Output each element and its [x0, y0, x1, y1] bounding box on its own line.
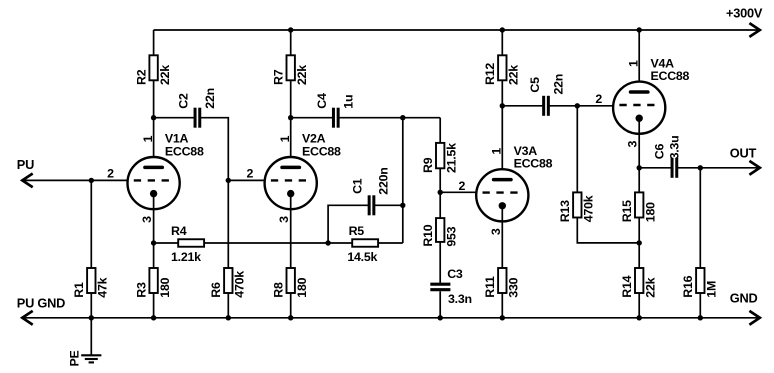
svg-text:220n: 220n	[377, 167, 391, 194]
wire V4A cathode down	[638, 118, 640, 192]
junction R12 / C5	[500, 103, 505, 108]
svg-text:R16: R16	[681, 275, 695, 297]
junction C2 / R6 / V2A grid	[226, 178, 231, 183]
wire rail to V4A anode	[638, 30, 640, 92]
svg-text:22k: 22k	[295, 65, 309, 85]
wire PU input to V1A grid	[25, 179, 129, 181]
svg-text:22k: 22k	[158, 65, 172, 85]
svg-text:1: 1	[141, 135, 155, 142]
svg-text:PU GND: PU GND	[17, 295, 65, 310]
svg-text:ECC88: ECC88	[514, 157, 553, 171]
capacitor C2	[195, 108, 200, 128]
wire R7 to V2A anode	[290, 80, 292, 168]
svg-text:R12: R12	[483, 63, 497, 85]
svg-text:953: 953	[444, 226, 458, 246]
wire rail to R7	[290, 30, 292, 55]
wire C3 bottom lead	[439, 291, 441, 318]
triode V3A (ECC88)	[476, 169, 528, 221]
svg-text:1: 1	[490, 148, 504, 155]
wire +300V rail	[154, 29, 758, 31]
svg-text:R2: R2	[134, 69, 148, 85]
svg-text:1M: 1M	[705, 281, 719, 298]
svg-text:R8: R8	[272, 282, 286, 298]
wire C1 left branch	[328, 205, 369, 243]
junction R2 / C2	[151, 115, 156, 120]
wire R11 bottom lead	[501, 293, 503, 318]
PU terminal arrow	[22, 174, 32, 188]
wire to V3A grid	[440, 191, 477, 193]
junction C4 line / C1-R5 branch	[400, 115, 405, 120]
wire R8 bottom lead	[290, 293, 292, 318]
wire R16 top lead	[699, 168, 701, 268]
svg-text:1: 1	[626, 60, 640, 67]
wire C5 to V4A grid	[548, 105, 614, 107]
svg-text:ECC88: ECC88	[165, 144, 204, 158]
svg-text:C1: C1	[350, 178, 364, 194]
svg-text:ECC88: ECC88	[651, 69, 690, 83]
wire R9 to R10	[439, 168, 441, 218]
capacitor C3	[430, 284, 450, 290]
junction R3 / ground rail	[151, 315, 156, 320]
svg-text:3.3n: 3.3n	[448, 292, 472, 306]
wire C2 left lead	[154, 117, 195, 119]
svg-text:22n: 22n	[551, 74, 565, 95]
wire rail to R2	[153, 30, 155, 55]
svg-text:ECC88: ECC88	[302, 144, 341, 158]
wire C4 to R9 corner	[338, 117, 440, 119]
svg-text:21.5k: 21.5k	[444, 143, 458, 173]
wire R4 to R5 node	[204, 242, 328, 244]
OUT terminal arrow	[749, 161, 759, 175]
svg-text:180: 180	[158, 277, 172, 297]
wire to V2A grid	[228, 179, 265, 181]
resistor R15	[635, 192, 643, 217]
junction R1 / ground rail	[89, 315, 94, 320]
svg-text:3: 3	[140, 216, 154, 223]
triode V1A (ECC88)	[128, 157, 180, 209]
resistor R7	[287, 55, 295, 80]
svg-text:3: 3	[489, 228, 503, 235]
svg-text:R3: R3	[134, 282, 148, 298]
wire R6 top lead	[227, 180, 229, 268]
svg-text:180: 180	[643, 202, 657, 222]
PE earth ground symbol	[81, 355, 101, 362]
GND terminal arrow	[749, 311, 759, 325]
wire R5 right lead	[378, 242, 403, 244]
junction C5 / R13	[575, 103, 580, 108]
wire C6 left lead	[639, 167, 672, 169]
svg-text:R15: R15	[620, 200, 634, 222]
triode V2A (ECC88)	[265, 157, 317, 209]
wire R10 to C3	[439, 242, 441, 283]
junction R7 / C4	[288, 115, 293, 120]
capacitor C4	[333, 108, 338, 128]
svg-text:R6: R6	[209, 282, 223, 298]
svg-text:330: 330	[507, 277, 521, 297]
resistor R5	[352, 239, 378, 247]
svg-text:1u: 1u	[341, 95, 355, 109]
wire C5 left lead	[502, 105, 543, 107]
svg-text:2: 2	[595, 92, 602, 106]
junction C1 / R5 vertical	[400, 203, 405, 208]
PU GND terminal arrow	[22, 311, 32, 325]
junction C3 / ground rail	[438, 315, 443, 320]
resistor R1	[87, 268, 95, 293]
triode V4A (ECC88)	[613, 82, 665, 134]
svg-text:C3: C3	[447, 267, 463, 281]
svg-text:PE: PE	[68, 350, 82, 366]
junction R6 / ground rail	[226, 315, 231, 320]
svg-text:OUT: OUT	[730, 145, 757, 160]
wire C2 to V2A grid	[200, 118, 229, 181]
resistor R9	[436, 143, 444, 168]
wire rail to R12	[501, 30, 503, 55]
junction rail / V4A anode	[637, 27, 642, 32]
junction V4A cathode / C6	[637, 165, 642, 170]
svg-text:3: 3	[277, 216, 291, 223]
svg-text:1: 1	[278, 135, 292, 142]
resistor R3	[149, 268, 157, 293]
svg-text:R10: R10	[421, 224, 435, 246]
svg-text:2: 2	[246, 167, 253, 181]
svg-text:R4: R4	[171, 224, 187, 238]
svg-text:R1: R1	[72, 282, 86, 298]
resistor R2	[149, 55, 157, 80]
junction V1A cathode / R4	[151, 240, 156, 245]
svg-text:R5: R5	[349, 224, 365, 238]
wire R3 bottom lead	[153, 293, 155, 318]
svg-text:R13: R13	[558, 200, 572, 222]
svg-text:2: 2	[458, 179, 465, 193]
wire R4 left lead	[154, 242, 179, 244]
svg-text:470k: 470k	[233, 271, 247, 298]
resistor R6	[224, 268, 232, 293]
wire R6 bottom lead	[227, 293, 229, 318]
wire R1 top lead	[90, 180, 92, 268]
junction R9 / R10 / V3A grid	[438, 190, 443, 195]
+300V terminal arrow	[749, 23, 759, 37]
svg-text:R7: R7	[272, 69, 286, 85]
svg-text:R14: R14	[620, 275, 634, 297]
svg-text:180: 180	[295, 277, 309, 297]
capacitor C1	[369, 195, 374, 215]
svg-text:R9: R9	[421, 157, 435, 173]
junction rail / R12	[500, 27, 505, 32]
svg-text:C6: C6	[652, 144, 666, 160]
junction R16 / ground rail	[698, 315, 703, 320]
resistor R4	[178, 239, 204, 247]
svg-text:3: 3	[626, 141, 640, 148]
resistor R13	[573, 192, 581, 217]
wire down to R9	[439, 118, 441, 143]
svg-text:C4: C4	[315, 93, 329, 109]
svg-text:1.21k: 1.21k	[171, 250, 201, 264]
resistor R11	[498, 268, 506, 293]
svg-text:PU: PU	[17, 157, 34, 172]
svg-text:22k: 22k	[643, 277, 657, 297]
svg-text:47k: 47k	[96, 277, 110, 297]
svg-text:22k: 22k	[507, 65, 521, 85]
resistor R8	[287, 268, 295, 293]
svg-text:C5: C5	[528, 77, 542, 93]
wire C1 right lead	[374, 204, 403, 206]
svg-text:3.3u: 3.3u	[667, 136, 681, 160]
svg-text:GND: GND	[730, 291, 758, 306]
wire C4-line to R5 vertical	[402, 118, 404, 243]
svg-text:470k: 470k	[582, 195, 596, 222]
wire V1A cathode down	[153, 194, 155, 268]
resistor R16	[696, 268, 704, 293]
junction R13 / R15 / R14	[637, 240, 642, 245]
wire C4 left lead	[291, 117, 334, 119]
svg-text:14.5k: 14.5k	[347, 250, 377, 264]
wire ground rail (PU GND)	[25, 317, 758, 319]
resistor R12	[498, 55, 506, 80]
capacitor C5	[544, 96, 549, 116]
wire R15 to R14	[638, 218, 640, 269]
wire V3A cathode down	[501, 206, 503, 268]
resistor R14	[635, 268, 643, 293]
wire C6 to OUT	[677, 167, 758, 169]
capacitor C6	[672, 158, 677, 178]
svg-text:C2: C2	[176, 93, 190, 109]
resistor R10	[436, 218, 444, 242]
wire R16 bottom lead	[699, 293, 701, 318]
wire R1 bottom lead	[90, 293, 92, 318]
wire R12 to V3A anode	[501, 80, 503, 180]
svg-text:22n: 22n	[203, 88, 217, 109]
junction R11 / ground rail	[500, 315, 505, 320]
wire R13 top lead	[576, 106, 578, 193]
svg-text:+300V: +300V	[726, 6, 763, 21]
wire V2A cathode down	[290, 194, 292, 268]
wire PE lead	[90, 318, 92, 356]
junction R4 / R5 / C1 branch	[325, 240, 330, 245]
junction PU / R1	[89, 178, 94, 183]
wire R2 to V1A anode	[153, 80, 155, 168]
wire R14 bottom lead	[638, 293, 640, 318]
svg-text:2: 2	[107, 167, 114, 181]
junction R8 / ground rail	[288, 315, 293, 320]
junction rail / R7	[288, 27, 293, 32]
svg-text:R11: R11	[483, 276, 497, 298]
wire R5 left lead	[328, 242, 352, 244]
junction C6 / R16	[698, 165, 703, 170]
wire R13 bottom to R15/R14 node	[577, 218, 639, 243]
junction R14 / ground rail	[637, 315, 642, 320]
